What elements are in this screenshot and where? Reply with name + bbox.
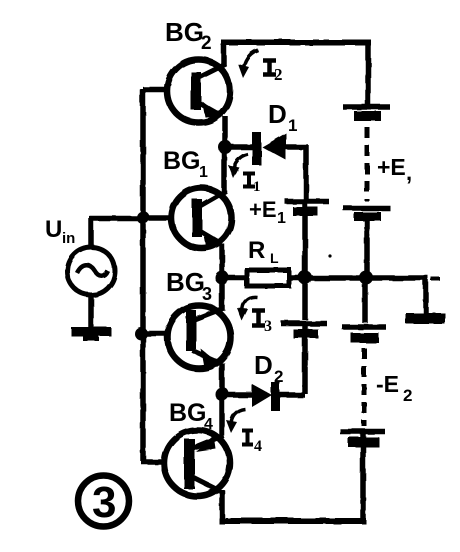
svg-text:4: 4 bbox=[204, 416, 213, 433]
svg-text:BG: BG bbox=[166, 267, 205, 297]
svg-text:L: L bbox=[270, 250, 279, 266]
svg-text:D: D bbox=[268, 99, 287, 129]
svg-text:R: R bbox=[248, 237, 265, 264]
svg-text:1: 1 bbox=[277, 210, 286, 227]
svg-text:BG: BG bbox=[163, 147, 201, 175]
svg-text:1: 1 bbox=[253, 179, 261, 195]
svg-text:2: 2 bbox=[201, 33, 212, 54]
svg-text:BG: BG bbox=[165, 17, 204, 47]
svg-text:4: 4 bbox=[254, 438, 262, 455]
svg-text:BG: BG bbox=[169, 399, 207, 427]
svg-text:2: 2 bbox=[274, 367, 283, 386]
svg-text:-E: -E bbox=[376, 371, 399, 397]
svg-text:2: 2 bbox=[274, 65, 283, 84]
svg-text:D: D bbox=[254, 350, 273, 380]
svg-text:U: U bbox=[45, 216, 62, 243]
svg-text:3: 3 bbox=[92, 478, 116, 527]
svg-text:3: 3 bbox=[264, 318, 272, 335]
svg-text:3: 3 bbox=[202, 284, 212, 304]
svg-text:1: 1 bbox=[288, 116, 297, 135]
svg-text:+E: +E bbox=[377, 154, 406, 180]
svg-text:+E: +E bbox=[249, 197, 277, 222]
svg-text:in: in bbox=[62, 230, 75, 247]
svg-text:2: 2 bbox=[403, 386, 412, 405]
svg-text:1: 1 bbox=[199, 164, 208, 181]
svg-text:,: , bbox=[406, 160, 412, 185]
